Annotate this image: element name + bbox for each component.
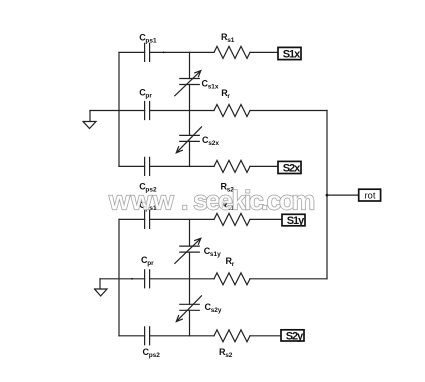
capacitor Cps2 of top section bbox=[145, 157, 150, 175]
ground top bbox=[83, 111, 96, 129]
wire row Rr-y bbox=[100, 278, 327, 280]
ground bottom bbox=[95, 279, 108, 296]
label Rr top bbox=[221, 88, 230, 100]
svg-text:s1: s1 bbox=[227, 37, 235, 44]
label Cs1x bbox=[202, 79, 219, 91]
wire row S1y bbox=[119, 218, 282, 220]
capacitor Cpr bottom bbox=[145, 270, 150, 288]
label Rs2 top bbox=[221, 181, 235, 193]
wire row S1x bbox=[119, 51, 278, 53]
resistor Rs2 bottom bbox=[214, 330, 250, 342]
variable capacitor Cs1x bbox=[175, 71, 201, 96]
label Cps2 top section bbox=[139, 182, 157, 194]
svg-text:www.seekic.com: www.seekic.com bbox=[108, 185, 315, 215]
svg-text:S1y: S1y bbox=[287, 215, 305, 227]
label Cpr bottom bbox=[141, 255, 154, 267]
svg-text:pr: pr bbox=[147, 260, 154, 267]
terminal box rot bbox=[359, 189, 381, 201]
label Rs1 bottom bbox=[221, 200, 235, 212]
resistor Rs1 bottom bbox=[214, 213, 250, 225]
junction dot rot bbox=[326, 194, 329, 197]
resistor Rs2 top bbox=[214, 160, 250, 172]
variable capacitor Cs2y bbox=[176, 296, 201, 322]
terminal box S1x bbox=[278, 47, 301, 60]
mid bus of top section bbox=[189, 52, 191, 166]
junction dot row Rr-y bbox=[131, 278, 133, 280]
capacitor Cpr top bbox=[145, 102, 150, 120]
label Rs2 bottom bbox=[219, 347, 233, 359]
left bus of bottom section bbox=[118, 219, 120, 335]
svg-text:ps1: ps1 bbox=[145, 37, 157, 44]
label Cs1y bbox=[204, 246, 221, 258]
left bus of top section bbox=[118, 52, 120, 166]
wire row S2y bbox=[119, 335, 281, 337]
capacitor Cps1 bbox=[145, 43, 150, 61]
terminal box S1y bbox=[282, 214, 305, 227]
wire row S2x bbox=[119, 165, 278, 167]
resistor Rr bottom bbox=[214, 273, 250, 285]
label Cps1 bbox=[139, 32, 157, 44]
svg-text:s2: s2 bbox=[225, 352, 233, 359]
svg-text:ps2: ps2 bbox=[149, 352, 161, 359]
label Cpr top bbox=[139, 88, 152, 100]
label Cs2y bbox=[205, 302, 222, 314]
mid bus of bottom section bbox=[189, 219, 191, 335]
label Cs2x bbox=[202, 135, 219, 147]
terminal box S2x bbox=[278, 161, 301, 174]
resistor Rs1 bbox=[214, 46, 250, 58]
svg-text:pr: pr bbox=[145, 93, 152, 100]
variable capacitor Cs1y bbox=[175, 238, 201, 263]
svg-text:S1x: S1x bbox=[283, 48, 301, 60]
capacitor Cps1 of bottom section bbox=[145, 210, 150, 228]
variable capacitor Cs2x bbox=[176, 127, 201, 153]
label Rs1 bbox=[221, 32, 235, 44]
capacitor Cps2 of bottom section bbox=[145, 327, 150, 345]
svg-text:s2x: s2x bbox=[208, 140, 219, 147]
wire row Rr-x bbox=[90, 110, 327, 112]
label Cps1 bottom section bbox=[139, 200, 157, 212]
wire to rot box bbox=[327, 194, 359, 196]
terminal box S2y bbox=[281, 330, 304, 343]
svg-text:s1x: s1x bbox=[208, 84, 219, 91]
label Rr bottom bbox=[226, 256, 235, 268]
svg-text:s2y: s2y bbox=[211, 307, 222, 314]
svg-text:S2y: S2y bbox=[286, 330, 304, 342]
resistor Rr top bbox=[214, 105, 250, 117]
svg-text:rot: rot bbox=[364, 191, 375, 202]
svg-text:S2x: S2x bbox=[283, 162, 301, 174]
label Cps2 bottom section bbox=[143, 347, 161, 359]
svg-text:s1y: s1y bbox=[210, 251, 221, 258]
right bus to rot bbox=[326, 111, 328, 279]
junction dot row S1x bbox=[163, 52, 165, 54]
